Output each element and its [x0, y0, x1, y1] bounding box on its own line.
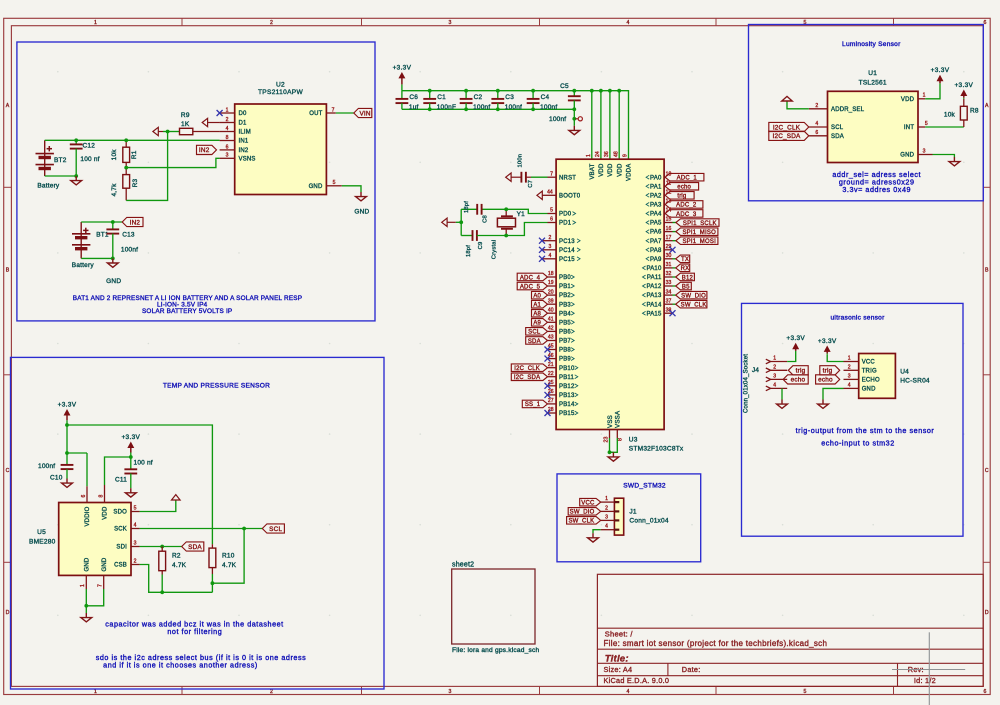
svg-text:3: 3: [923, 148, 926, 154]
IC U5 BME280: [59, 503, 131, 576]
svg-text:100nf: 100nf: [540, 104, 557, 111]
wire crystal bottom to PD1: [477, 223, 548, 236]
wire ADDR_SEL to gnd-up: [787, 101, 809, 109]
svg-text:SPI1_MISO: SPI1_MISO: [682, 230, 716, 236]
wire VSNS net: [126, 158, 219, 167]
junction R10 low: [211, 581, 215, 585]
svg-text:PA14: PA14: [646, 302, 661, 308]
wire VDD branch: [105, 457, 131, 485]
svg-text:C4: C4: [541, 94, 550, 101]
svg-text:BME280: BME280: [29, 539, 56, 546]
pin 25 PB12 U3: [548, 385, 557, 387]
svg-text:4: 4: [226, 126, 229, 132]
wire MCU VDD feed: [618, 91, 620, 160]
resistor R9 1K: [178, 131, 181, 133]
svg-text:INT: INT: [904, 125, 914, 131]
svg-text:6: 6: [550, 217, 553, 223]
pin 2 PC13 U3: [542, 240, 556, 242]
svg-text:I2C_CLK: I2C_CLK: [514, 366, 540, 372]
junction C5 top: [572, 89, 576, 93]
section box ultrasonic: [742, 303, 964, 536]
capacitor C10 100nf: [61, 464, 74, 466]
svg-text:100 nf: 100 nf: [134, 460, 153, 467]
wire BT2 top rail to IN1: [45, 139, 220, 141]
ground U1: [953, 157, 955, 162]
power flag +3.3V BME right: [130, 453, 132, 458]
svg-text:8: 8: [226, 135, 229, 141]
svg-text:B12: B12: [682, 275, 694, 281]
dangling flag BOOT0: [537, 191, 542, 199]
svg-text:C: C: [985, 468, 989, 474]
pin 4 J1: [601, 529, 615, 531]
svg-text:+3.3V: +3.3V: [393, 64, 412, 71]
svg-text:HC-SR04: HC-SR04: [900, 378, 930, 385]
svg-text:GND: GND: [354, 209, 369, 216]
wire INT to R8: [925, 126, 964, 128]
wire CSB down: [140, 565, 213, 593]
resistor R2 4.7K: [161, 547, 163, 552]
svg-text:+3.3V: +3.3V: [931, 67, 950, 74]
svg-text:10k: 10k: [111, 149, 118, 161]
svg-text:PB1: PB1: [559, 284, 571, 290]
pin 14 PA4 U3: [664, 213, 665, 215]
svg-text:and if it is one it chooses an: and if it is one it chooses another adre…: [103, 660, 258, 669]
svg-text:PB0: PB0: [559, 275, 571, 281]
svg-text:8: 8: [98, 495, 104, 498]
svg-text:7: 7: [98, 584, 104, 587]
svg-text:not for filtering: not for filtering: [167, 627, 222, 636]
junction rail: [590, 89, 594, 93]
svg-text:Crystal: Crystal: [492, 240, 498, 259]
svg-text:PC15: PC15: [559, 257, 575, 263]
wire +3.3V top rail: [402, 91, 629, 160]
svg-text:24: 24: [595, 151, 601, 157]
wire MCU VDD feed: [609, 91, 611, 160]
svg-text:39: 39: [548, 298, 554, 304]
svg-text:Title:: Title:: [605, 654, 629, 665]
junction C12 top: [74, 138, 78, 142]
svg-text:Battery: Battery: [37, 183, 60, 190]
junction rail top: [464, 89, 468, 93]
svg-text:File: lora and gps.kicad_sch: File: lora and gps.kicad_sch: [452, 647, 539, 654]
svg-text:3: 3: [548, 244, 551, 250]
power flag +3.3V R8: [963, 98, 965, 99]
junction crystal bottom: [504, 234, 508, 238]
svg-text:43: 43: [548, 335, 554, 341]
pin 1 J4: [766, 359, 771, 364]
svg-text:VCC: VCC: [862, 360, 876, 366]
svg-text:PB4: PB4: [559, 311, 571, 317]
svg-text:VDD: VDD: [608, 163, 614, 177]
IC U2 TPS2110APW: [235, 104, 327, 195]
svg-text:18pf: 18pf: [464, 201, 470, 213]
svg-text:PA5: PA5: [650, 221, 662, 227]
capacitor C12 100nf: [75, 140, 77, 144]
no-connect PB12: [545, 383, 551, 389]
svg-text:GND: GND: [106, 278, 121, 285]
svg-text:VDD: VDD: [901, 97, 915, 103]
wire gnd stem: [610, 451, 614, 453]
svg-text:echo: echo: [677, 185, 691, 191]
svg-text:C12: C12: [83, 143, 96, 150]
svg-text:C2: C2: [474, 94, 483, 101]
svg-text:4: 4: [773, 382, 776, 388]
svg-text:VDDA: VDDA: [627, 164, 633, 181]
capacitor C13 100nf: [112, 222, 114, 229]
svg-text:trig: trig: [823, 368, 833, 375]
svg-text:40: 40: [548, 307, 554, 313]
global label A8: [532, 310, 548, 318]
global label SPI1_MOSI: [676, 237, 718, 245]
junction U5 gnd: [84, 604, 88, 608]
global label RX: [676, 264, 690, 272]
svg-text:VDDIO: VDDIO: [85, 506, 91, 526]
svg-text:TRIG: TRIG: [862, 368, 877, 374]
svg-text:R1: R1: [131, 150, 138, 159]
pin 43 PB7 U3: [548, 340, 557, 342]
svg-text:SOLAR BATTERY 5VOLTS IP: SOLAR BATTERY 5VOLTS IP: [142, 308, 232, 315]
svg-text:2: 2: [773, 364, 776, 370]
capacitor C5 100nf: [573, 91, 575, 97]
svg-text:3: 3: [773, 373, 776, 379]
svg-text:PC14: PC14: [559, 248, 575, 254]
junction crystal left: [459, 220, 463, 224]
svg-text:7: 7: [332, 107, 335, 113]
pin 38 PA15 U3: [664, 312, 672, 314]
svg-text:PA3: PA3: [650, 203, 662, 209]
svg-text:R10: R10: [222, 553, 235, 560]
svg-text:KiCad E.D.A. 9.0.0: KiCad E.D.A. 9.0.0: [604, 676, 670, 685]
svg-text:VSNS: VSNS: [239, 156, 256, 162]
svg-text:2: 2: [848, 364, 851, 370]
svg-text:U1: U1: [868, 70, 877, 77]
svg-text:PD1: PD1: [559, 221, 572, 227]
svg-text:PA15: PA15: [646, 311, 661, 317]
junction rail top: [428, 89, 432, 93]
capacitor C4 100nf: [532, 91, 534, 99]
svg-text:A: A: [985, 103, 989, 109]
svg-text:PA0: PA0: [650, 175, 662, 181]
pin 41 PB5 U3: [548, 321, 557, 323]
svg-text:4: 4: [134, 522, 137, 528]
wire MCU VBAT feed: [591, 91, 593, 160]
svg-text:100nF: 100nF: [437, 104, 456, 111]
svg-text:GND: GND: [102, 557, 108, 571]
global label B12: [676, 273, 695, 281]
pin 4 GND U4: [844, 387, 859, 389]
capacitor C1 100nF: [429, 91, 431, 99]
wire U4 VCC to +3.3V: [827, 354, 843, 361]
pin 2 J1: [601, 510, 615, 512]
svg-text:SS_1: SS_1: [525, 402, 541, 408]
wire R10 to SCK column: [212, 529, 244, 584]
svg-text:BT1: BT1: [96, 231, 109, 238]
svg-text:2: 2: [548, 235, 551, 241]
pin 46 PB9 U3: [548, 358, 557, 360]
wire decoupling bottom rail: [402, 108, 574, 110]
pin 27 PB14 U3: [548, 403, 557, 405]
pin 40 PB4 U3: [548, 312, 557, 314]
no-connect PC15: [539, 256, 545, 262]
junction SCK: [242, 527, 246, 531]
global label SW_DIO: [676, 291, 707, 299]
svg-text:SCL: SCL: [831, 125, 844, 131]
svg-text:C6: C6: [409, 94, 418, 101]
global label ADC_3: [665, 210, 703, 218]
svg-text:B: B: [6, 268, 10, 274]
dangling circle stub: [576, 118, 578, 120]
svg-text:SWD_STM32: SWD_STM32: [623, 483, 666, 490]
pin 3 GND U1: [918, 154, 933, 156]
svg-text:TEMP AND PRESSURE SENSOR: TEMP AND PRESSURE SENSOR: [163, 383, 270, 390]
svg-text:1: 1: [773, 356, 776, 362]
svg-text:Sheet: /: Sheet: /: [605, 629, 634, 638]
pin 29 PA8 U3: [664, 249, 672, 251]
svg-text:1: 1: [923, 93, 926, 99]
svg-text:U3: U3: [629, 437, 638, 444]
svg-text:C3: C3: [505, 94, 514, 101]
svg-text:23: 23: [604, 437, 610, 443]
svg-text:38: 38: [666, 307, 672, 313]
junction vddio rail: [65, 423, 69, 427]
pin 7 OUT U2: [326, 112, 335, 114]
svg-text:SDA: SDA: [188, 544, 202, 551]
junction rail top: [531, 89, 535, 93]
svg-text:6: 6: [815, 130, 818, 136]
capacitor C11 100nf: [130, 457, 132, 469]
svg-text:3.3v= addres 0x49: 3.3v= addres 0x49: [842, 185, 911, 194]
svg-text:SW_CLK: SW_CLK: [568, 519, 594, 525]
svg-text:SDA: SDA: [528, 339, 541, 345]
junction rail top: [496, 89, 500, 93]
svg-text:D: D: [985, 610, 989, 616]
svg-text:C10: C10: [50, 475, 63, 482]
capacitor C3 100nf: [497, 91, 499, 99]
wire U5 gnd join: [85, 589, 87, 606]
junction rail: [599, 89, 603, 93]
pin 1 VDD U1: [918, 98, 925, 100]
global label VCC: [580, 498, 601, 506]
pin 2 J4: [766, 368, 771, 373]
svg-text:1uf: 1uf: [409, 104, 419, 111]
pin 7 GND U5: [103, 575, 105, 589]
global label echo at U4: [816, 375, 840, 384]
junction rail bottom: [464, 107, 468, 111]
svg-text:PA10: PA10: [646, 266, 661, 272]
svg-text:1: 1: [226, 107, 229, 113]
svg-text:A9: A9: [533, 321, 541, 327]
svg-text:1: 1: [94, 689, 97, 695]
svg-text:TPS2110APW: TPS2110APW: [258, 89, 303, 96]
pin 30 PA9 U3: [664, 258, 672, 260]
svg-text:SCL: SCL: [528, 330, 541, 336]
global label SPI1_SCLK: [676, 219, 719, 227]
svg-text:D1: D1: [239, 121, 248, 127]
wire crystal flag: [456, 221, 461, 223]
wire SDI to SDA label: [140, 546, 182, 548]
svg-text:44: 44: [547, 190, 553, 196]
svg-text:C1: C1: [437, 94, 446, 101]
svg-text:31: 31: [666, 262, 672, 268]
capacitor C9 18pf: [461, 235, 472, 237]
svg-text:6: 6: [226, 144, 229, 150]
svg-text:BT2: BT2: [54, 157, 67, 164]
svg-text:100nf: 100nf: [121, 246, 138, 253]
junction crystal top: [504, 207, 508, 211]
svg-text:PA13: PA13: [646, 293, 661, 299]
svg-text:I2C_CLK: I2C_CLK: [773, 124, 801, 131]
power flag +3.3V rail: [401, 84, 403, 90]
svg-text:100 nf: 100 nf: [80, 156, 99, 163]
svg-text:21: 21: [548, 362, 554, 368]
section box power: [17, 42, 375, 321]
svg-text:PA8: PA8: [650, 248, 662, 254]
svg-text:1: 1: [605, 496, 608, 502]
pin 3 PC14 U3: [542, 249, 556, 251]
svg-text:4: 4: [605, 524, 608, 530]
svg-text:PB15: PB15: [559, 411, 575, 417]
wire crystal left rail: [461, 208, 477, 210]
svg-text:Conn_01x04: Conn_01x04: [629, 518, 669, 525]
wire U4 GND: [823, 388, 844, 399]
svg-text:ILIM: ILIM: [239, 130, 251, 136]
pin 42 PB6 U3: [548, 330, 557, 332]
crystal Y1: [505, 209, 507, 216]
IC U3 STM32F103C8Tx: [556, 159, 664, 429]
svg-text:GND: GND: [84, 557, 90, 571]
wire to label SW_CLK: [673, 303, 676, 305]
pin 19 PB1 U3: [548, 285, 557, 287]
capacitor C8 18pf: [476, 204, 478, 215]
wire to label SPI1_MISO: [673, 231, 676, 233]
section box SWD: [557, 474, 701, 562]
global label SW_DIO: [568, 508, 601, 515]
svg-text:IN2: IN2: [130, 219, 141, 226]
svg-text:+3.3V: +3.3V: [58, 402, 77, 409]
IC U4 HC-SR04: [859, 354, 896, 399]
svg-text:2: 2: [815, 103, 818, 109]
global label SDA: [182, 542, 204, 551]
svg-text:1: 1: [94, 20, 97, 26]
ground flipped ADDR_SEL: [782, 96, 792, 101]
svg-text:PA4: PA4: [650, 212, 662, 218]
section box luminosity: [749, 25, 984, 201]
svg-text:5: 5: [804, 689, 807, 695]
wire to label B12: [673, 276, 676, 278]
svg-text:D: D: [6, 610, 10, 616]
junction SDI: [160, 545, 164, 549]
svg-text:8: 8: [617, 438, 623, 441]
IC U1 TSL2561: [828, 91, 919, 162]
global label SDA: [526, 337, 548, 345]
dangling flag SDO: [172, 495, 181, 500]
capacitor C6 1uf: [401, 91, 403, 99]
svg-text:4.7K: 4.7K: [222, 562, 237, 569]
wire GND U1: [933, 155, 955, 158]
no-connect D0: [217, 110, 223, 116]
svg-text:I2C_SDA: I2C_SDA: [772, 133, 801, 140]
svg-text:PB9: PB9: [559, 357, 571, 363]
pin 32 PA11 U3: [664, 276, 672, 278]
svg-text:3: 3: [848, 373, 851, 379]
svg-text:Size: A4: Size: A4: [604, 665, 633, 674]
svg-text:42: 42: [548, 326, 554, 332]
no-connect PC13: [539, 238, 545, 244]
svg-text:4: 4: [548, 253, 551, 259]
svg-text:2: 2: [270, 689, 273, 695]
junction C5 mid: [572, 107, 576, 111]
pin 4 ILIM U2: [220, 131, 235, 133]
svg-text:ultrasonic sensor: ultrasonic sensor: [830, 315, 885, 322]
ground U2 GND: [360, 192, 362, 197]
pin 2 ADDR_SEL U1: [809, 108, 828, 110]
svg-text:16: 16: [666, 226, 672, 232]
pin 8 VSSA U3: [616, 430, 618, 439]
svg-text:RX: RX: [681, 266, 690, 272]
svg-text:PA11: PA11: [647, 275, 662, 281]
svg-text:7: 7: [550, 171, 553, 177]
battery BT1: [80, 222, 82, 258]
global label ADC_5: [517, 282, 547, 290]
global label I2C_CLK: [511, 364, 547, 372]
svg-text:3: 3: [449, 20, 452, 26]
svg-text:6: 6: [984, 689, 987, 695]
ground J4: [781, 400, 783, 405]
wire to label SPI1_MOSI: [673, 240, 676, 242]
wire J1 pin4 gnd: [593, 530, 601, 534]
pin 5 SDO U5: [131, 511, 140, 513]
ground U4: [822, 400, 824, 405]
svg-text:A0: A0: [533, 293, 541, 299]
ground C11: [130, 488, 132, 493]
svg-text:C: C: [6, 468, 10, 474]
svg-text:J1: J1: [629, 509, 636, 516]
svg-text:4,7k: 4,7k: [111, 183, 118, 197]
pin 5 PD0 U3: [548, 213, 557, 215]
svg-text:C5: C5: [560, 83, 569, 90]
wire J4 pin4 gnd: [781, 388, 783, 399]
wire OUT to VIN: [336, 112, 354, 114]
svg-text:5: 5: [925, 121, 928, 127]
dangling flag ILIM: [153, 127, 158, 135]
ground C5: [573, 126, 575, 131]
svg-text:4.7K: 4.7K: [172, 562, 187, 569]
svg-text:PB13: PB13: [559, 393, 575, 399]
pin 6 PD1 U3: [548, 222, 557, 224]
ground J1: [592, 533, 594, 538]
svg-text:100nf: 100nf: [549, 116, 566, 123]
svg-text:Luminosity Sensor: Luminosity Sensor: [842, 41, 901, 48]
svg-text:9: 9: [623, 154, 629, 157]
svg-text:+3.3V: +3.3V: [786, 335, 805, 342]
svg-text:echo: echo: [818, 377, 833, 384]
svg-text:18pf: 18pf: [466, 245, 472, 257]
svg-text:B: B: [985, 268, 989, 274]
svg-text:30: 30: [666, 253, 672, 259]
junction VSS gnd: [608, 450, 612, 454]
svg-text:BOOT0: BOOT0: [559, 193, 581, 199]
svg-text:IN2: IN2: [239, 148, 249, 154]
junction rail: [608, 89, 612, 93]
wire SDO up to flag: [140, 500, 176, 512]
global label TX: [676, 255, 690, 263]
wire down to VDDIO branch: [66, 425, 68, 465]
global label SCL: [262, 524, 284, 533]
svg-text:3: 3: [605, 514, 608, 520]
global label IN2 at BT1: [122, 217, 143, 226]
svg-text:19: 19: [548, 280, 554, 286]
svg-text:PB14: PB14: [559, 402, 575, 408]
